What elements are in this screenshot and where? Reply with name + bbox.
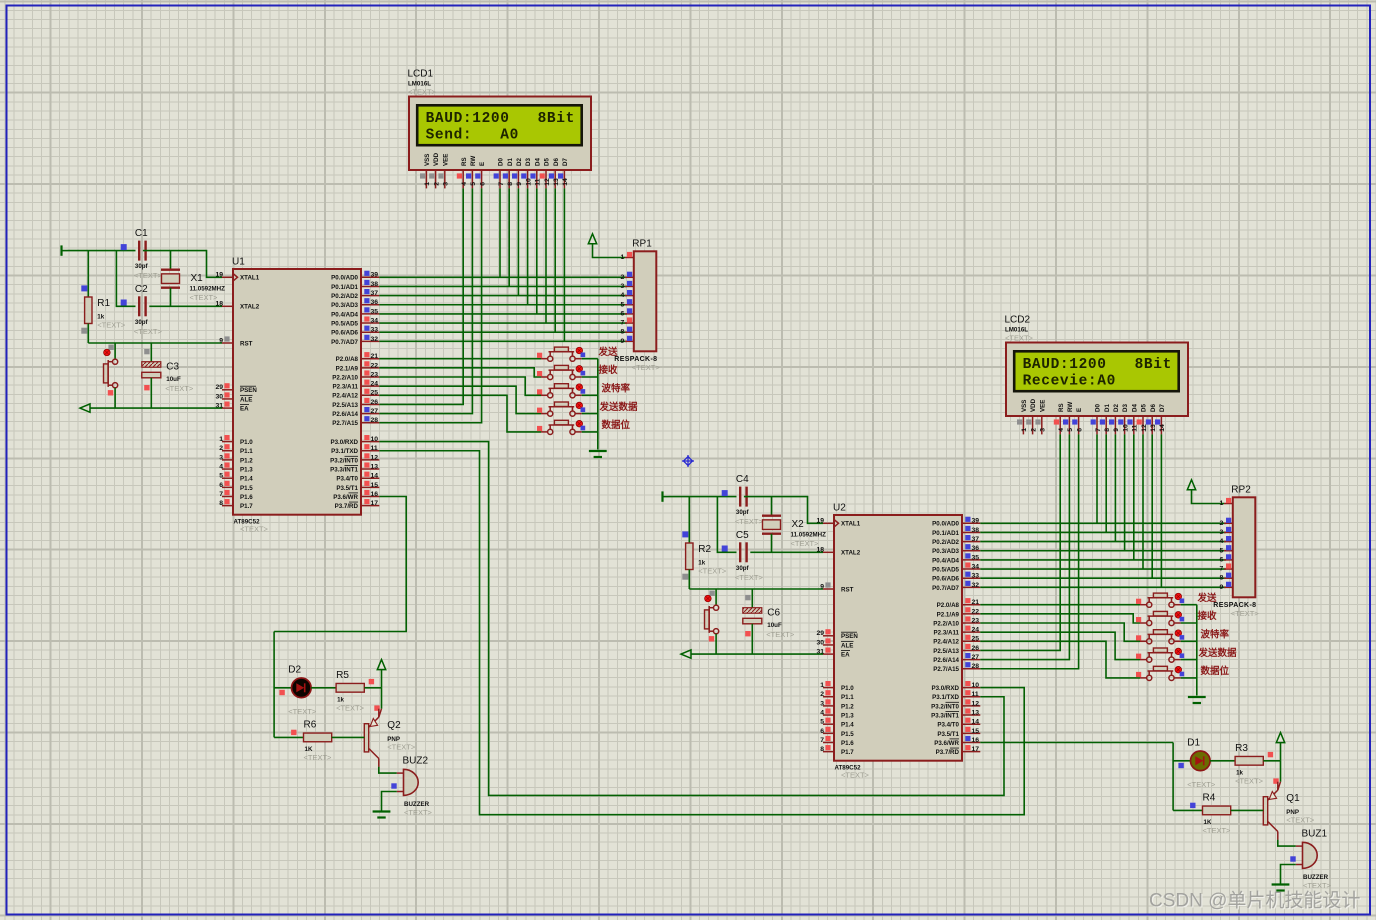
wire LCD2 E to P2.7 bbox=[980, 434, 1078, 668]
wire key2 to bus bbox=[1181, 622, 1197, 624]
svg-text:8: 8 bbox=[507, 182, 514, 186]
wire power to RP1 pin1 bbox=[593, 244, 626, 258]
wire crystal bottom stub bbox=[771, 534, 773, 553]
svg-text:P0.4/AD4: P0.4/AD4 bbox=[331, 311, 358, 318]
U2 pin P2.7/A15 (28) bbox=[933, 662, 980, 673]
svg-text:<TEXT>: <TEXT> bbox=[1235, 776, 1264, 785]
svg-text:32: 32 bbox=[972, 582, 980, 589]
U1 pin P0.5/AD5 (34) bbox=[331, 316, 379, 327]
wire LCD2 D6 to P0.6 bbox=[1151, 434, 1153, 578]
svg-text:RS: RS bbox=[461, 157, 468, 166]
lcd LCD1 pin RW (5) bbox=[466, 156, 477, 189]
svg-text:9: 9 bbox=[1220, 584, 1224, 591]
wire emitter pin (U2) bbox=[1278, 782, 1281, 790]
svg-text:9: 9 bbox=[621, 338, 625, 345]
wire U1 P0.0 to respack bbox=[379, 276, 627, 278]
U2 pin P3.2/INT0 (12) bbox=[931, 699, 980, 710]
wire RST rail to button bbox=[114, 343, 116, 359]
svg-text:P3.0/RXD: P3.0/RXD bbox=[931, 685, 959, 692]
node square btn top bbox=[108, 345, 113, 350]
svg-text:11: 11 bbox=[535, 178, 542, 185]
lcd LCD1 pin VEE (3) bbox=[438, 154, 449, 189]
wire LCD2 D7 to P0.7 bbox=[1160, 434, 1162, 587]
svg-text:P2.3/A11: P2.3/A11 bbox=[333, 384, 359, 391]
svg-text:接收: 接收 bbox=[599, 364, 619, 376]
U2 pin RST (9) bbox=[820, 582, 853, 593]
svg-text:D5: D5 bbox=[1141, 404, 1148, 412]
svg-text:LCD1: LCD1 bbox=[408, 69, 434, 80]
svg-text:P2.1/A9: P2.1/A9 bbox=[937, 611, 960, 618]
respack RP2 pin 4 bbox=[1220, 536, 1233, 545]
svg-text:D2: D2 bbox=[288, 664, 301, 675]
svg-text:P0.6/AD6: P0.6/AD6 bbox=[932, 576, 959, 583]
U2 pin P1.1 (2) bbox=[820, 690, 854, 701]
U2 pin P2.2/A10 (23) bbox=[933, 616, 980, 627]
svg-text:P2.6/A14: P2.6/A14 bbox=[933, 657, 959, 664]
svg-text:P1.1: P1.1 bbox=[841, 694, 854, 701]
U1 pin P2.5/A13 (26) bbox=[332, 398, 379, 409]
svg-text:C5: C5 bbox=[736, 530, 749, 541]
svg-text:1: 1 bbox=[424, 182, 431, 186]
svg-text:5: 5 bbox=[1067, 428, 1074, 432]
U1 pin P0.4/AD4 (35) bbox=[331, 307, 379, 318]
wire C top to crystal/XTAL1 bbox=[143, 251, 222, 278]
transistor Q2 bbox=[364, 709, 416, 767]
respack RP1 pin 1 bbox=[621, 252, 634, 261]
U2 pin P0.1/AD1 (38) bbox=[932, 526, 980, 537]
svg-text:12: 12 bbox=[371, 454, 379, 461]
svg-text:34: 34 bbox=[371, 317, 379, 324]
svg-text:4: 4 bbox=[219, 463, 223, 470]
svg-text:34: 34 bbox=[972, 563, 980, 570]
svg-text:22: 22 bbox=[972, 608, 980, 615]
svg-text:11: 11 bbox=[1132, 424, 1139, 431]
svg-text:7: 7 bbox=[621, 320, 625, 327]
U1 pin P2.0/A8 (21) bbox=[336, 352, 380, 363]
wire key4 to bus bbox=[582, 413, 598, 415]
svg-text:D4: D4 bbox=[1131, 404, 1138, 412]
svg-text:3: 3 bbox=[820, 700, 824, 707]
svg-text:P3.0/RXD: P3.0/RXD bbox=[330, 439, 358, 446]
svg-text:数据位: 数据位 bbox=[601, 419, 631, 431]
svg-text:RW: RW bbox=[1067, 402, 1074, 412]
U2 pin XTAL1 (19) bbox=[816, 518, 860, 528]
terminal arrow (EA rail) bbox=[681, 650, 691, 658]
wire power to RP2 pin1 bbox=[1192, 490, 1225, 504]
svg-text:6: 6 bbox=[219, 482, 223, 489]
svg-text:RP1: RP1 bbox=[632, 238, 652, 249]
U1 pin EA (31) bbox=[215, 402, 249, 413]
wire LCD2 RW to P2.6 bbox=[980, 434, 1069, 659]
U2 pin P0.4/AD4 (35) bbox=[932, 553, 980, 564]
svg-text:C4: C4 bbox=[736, 474, 749, 485]
node square cap top bbox=[745, 595, 750, 600]
svg-text:P2.0/A8: P2.0/A8 bbox=[336, 356, 359, 363]
wire EA rail bbox=[90, 407, 222, 409]
wire U1 P0.2 to respack bbox=[379, 295, 627, 297]
svg-text:P0.2/AD2: P0.2/AD2 bbox=[331, 293, 358, 300]
svg-text:P3.6/WR: P3.6/WR bbox=[333, 494, 358, 501]
U2 pin P2.5/A13 (26) bbox=[933, 644, 980, 655]
svg-text:P1.5: P1.5 bbox=[841, 731, 854, 738]
wire button to EA rail bbox=[114, 388, 116, 408]
svg-text:P3.5/T1: P3.5/T1 bbox=[336, 485, 358, 492]
svg-text:BAUD:1200 8Bit: BAUD:1200 8Bit bbox=[426, 111, 575, 127]
lcd LCD2 pin D7 (14) bbox=[1155, 404, 1166, 435]
svg-text:<TEXT>: <TEXT> bbox=[1187, 780, 1216, 789]
wire LCD1 D6 to P0.6 bbox=[554, 188, 556, 332]
svg-text:4: 4 bbox=[621, 292, 625, 299]
svg-text:P3.5/T1: P3.5/T1 bbox=[937, 731, 959, 738]
svg-text:<TEXT>: <TEXT> bbox=[766, 630, 795, 639]
ground tap terminal bbox=[62, 245, 68, 255]
svg-text:21: 21 bbox=[371, 353, 379, 360]
wire base (U1) bbox=[274, 736, 303, 738]
svg-text:P3.3/INT1: P3.3/INT1 bbox=[931, 712, 959, 719]
svg-text:10: 10 bbox=[972, 682, 980, 689]
wire key5 to bus bbox=[1181, 677, 1197, 679]
svg-text:8: 8 bbox=[621, 329, 625, 336]
watermark CSDN bbox=[1149, 890, 1362, 913]
svg-text:P1.7: P1.7 bbox=[240, 503, 253, 510]
U1 pin P1.7 (8) bbox=[219, 499, 253, 510]
svg-text:28: 28 bbox=[371, 417, 379, 424]
svg-text:P1.6: P1.6 bbox=[240, 494, 253, 501]
wire top rail bbox=[669, 496, 737, 498]
respack RP2 pin 9 bbox=[1220, 582, 1233, 591]
respack RP2 pin 3 bbox=[1220, 527, 1233, 536]
svg-text:P1.6: P1.6 bbox=[841, 740, 854, 747]
mcu U1 AT89C52 body bbox=[232, 257, 361, 534]
svg-text:12: 12 bbox=[1141, 424, 1148, 432]
wire buzzer to ground (U1) bbox=[382, 792, 397, 811]
lcd LCD2 labels bbox=[1005, 315, 1034, 343]
wire emitter pin (U1) bbox=[379, 709, 382, 717]
svg-text:P1.4: P1.4 bbox=[841, 722, 854, 729]
wire LCD2 RS to P2.5 bbox=[980, 434, 1060, 650]
wire U2 P0.5 to respack bbox=[980, 568, 1226, 570]
svg-text:2: 2 bbox=[1220, 520, 1224, 527]
respack RP1 pin 8 bbox=[621, 327, 634, 336]
svg-text:P0.3/AD3: P0.3/AD3 bbox=[932, 548, 959, 555]
svg-text:38: 38 bbox=[371, 281, 379, 288]
lcd LCD2 pin D0 (7) bbox=[1091, 404, 1102, 435]
push button key2-5 (data-bits) bbox=[1136, 666, 1184, 680]
capacitor C3 bbox=[142, 362, 194, 394]
wire LCD1 RW to P2.6 bbox=[379, 188, 472, 413]
terminal arrow (EA rail) bbox=[80, 404, 90, 412]
svg-text:10: 10 bbox=[1122, 424, 1129, 432]
U2 pin P1.0 (1) bbox=[820, 681, 854, 692]
push button key2-2 (receive) bbox=[1136, 611, 1184, 625]
svg-text:21: 21 bbox=[972, 599, 980, 606]
svg-text:D3: D3 bbox=[1122, 404, 1129, 412]
svg-text:<TEXT>: <TEXT> bbox=[336, 703, 365, 712]
svg-text:P2.2/A10: P2.2/A10 bbox=[332, 374, 358, 381]
wire LCD1 E to P2.7 bbox=[379, 188, 481, 422]
U1 pin XTAL1 (19) bbox=[215, 272, 259, 282]
svg-text:13: 13 bbox=[553, 178, 560, 186]
respack RP1 pin 5 bbox=[621, 299, 634, 308]
svg-text:14: 14 bbox=[972, 719, 980, 726]
svg-text:<TEXT>: <TEXT> bbox=[1303, 881, 1332, 890]
svg-text:15: 15 bbox=[371, 482, 379, 489]
svg-text:P0.5/AD5: P0.5/AD5 bbox=[331, 320, 358, 327]
svg-text:VDD: VDD bbox=[433, 152, 440, 166]
LED D1 bbox=[1187, 737, 1216, 789]
wire R to base (U2) bbox=[1231, 809, 1264, 811]
svg-text:发送数据: 发送数据 bbox=[1198, 647, 1238, 659]
svg-text:<TEXT>: <TEXT> bbox=[134, 271, 163, 280]
wire U1 P0.6 to respack bbox=[379, 331, 627, 333]
svg-text:D1: D1 bbox=[1187, 737, 1200, 748]
lcd LCD2 pin VSS (1) bbox=[1017, 400, 1028, 435]
svg-text:ALE: ALE bbox=[240, 396, 252, 403]
svg-text:LCD2: LCD2 bbox=[1005, 315, 1031, 326]
svg-text:11.0592MHZ: 11.0592MHZ bbox=[190, 286, 226, 293]
svg-text:P1.7: P1.7 bbox=[841, 749, 854, 756]
svg-text:26: 26 bbox=[371, 399, 379, 406]
svg-text:D0: D0 bbox=[498, 158, 505, 166]
svg-text:38: 38 bbox=[972, 527, 980, 534]
wire LCD1 D0 to P0.0 bbox=[499, 188, 501, 277]
U2 pin P3.1/TXD (11) bbox=[932, 690, 980, 701]
svg-text:25: 25 bbox=[371, 390, 379, 397]
svg-text:11.0592MHZ: 11.0592MHZ bbox=[791, 532, 827, 539]
svg-text:7: 7 bbox=[498, 182, 505, 186]
wire U1 P2.3 to key4 bbox=[379, 386, 541, 413]
node square buzzer (U2) bbox=[1290, 856, 1295, 861]
lcd LCD1 labels bbox=[408, 69, 437, 97]
node square emitter (U2) bbox=[1273, 778, 1278, 783]
ground below buzzer (U2) bbox=[1272, 885, 1290, 891]
wire LCD1 RS to P2.5 bbox=[379, 188, 463, 404]
wire U1 P2.0 to key1 bbox=[379, 358, 541, 360]
svg-text:5: 5 bbox=[470, 182, 477, 186]
node square LED left (U1) bbox=[279, 690, 284, 695]
svg-text:9: 9 bbox=[516, 182, 523, 186]
svg-text:10uF: 10uF bbox=[767, 622, 782, 629]
power terminal above RP1 bbox=[588, 234, 596, 244]
push button key2-3 (baud) bbox=[1136, 630, 1184, 644]
svg-text:R1: R1 bbox=[97, 298, 110, 309]
svg-text:<TEXT>: <TEXT> bbox=[240, 525, 269, 534]
U2 pin P2.4/A12 (25) bbox=[933, 635, 980, 646]
wire key1 to bus bbox=[1181, 604, 1197, 606]
svg-text:C6: C6 bbox=[767, 608, 780, 619]
wire R top stub bbox=[87, 251, 89, 297]
svg-text:P3.4/T0: P3.4/T0 bbox=[937, 722, 959, 729]
node square base (U1) bbox=[291, 730, 296, 735]
respack RP2 pin 7 bbox=[1220, 563, 1233, 572]
svg-text:接收: 接收 bbox=[1198, 610, 1218, 622]
push button key2-4 (send-data) bbox=[1136, 648, 1184, 662]
svg-text:Send: A0: Send: A0 bbox=[426, 128, 519, 144]
wire U2 P2.0 to key1 bbox=[980, 604, 1140, 606]
U1 pin P3.0/RXD (10) bbox=[330, 435, 379, 446]
mcu U2 AT89C52 body bbox=[833, 503, 962, 780]
svg-text:23: 23 bbox=[371, 371, 379, 378]
svg-text:VSS: VSS bbox=[1021, 400, 1028, 412]
svg-text:P2.5/A13: P2.5/A13 bbox=[332, 402, 358, 409]
svg-text:37: 37 bbox=[972, 536, 980, 543]
svg-text:D1: D1 bbox=[507, 158, 514, 166]
svg-text:<TEXT>: <TEXT> bbox=[404, 808, 433, 817]
svg-text:P3.2/INT0: P3.2/INT0 bbox=[330, 457, 358, 464]
U1 pin P3.7/RD (17) bbox=[335, 499, 380, 510]
resistor R4 bbox=[1203, 792, 1232, 835]
U2 pin P2.0/A8 (21) bbox=[937, 598, 981, 609]
svg-text:LM016L: LM016L bbox=[408, 81, 431, 88]
lcd LCD2 screen bbox=[1014, 351, 1178, 391]
svg-text:P0.5/AD5: P0.5/AD5 bbox=[932, 566, 959, 573]
svg-text:6: 6 bbox=[1076, 428, 1083, 432]
svg-text:1: 1 bbox=[621, 254, 625, 261]
svg-text:<TEXT>: <TEXT> bbox=[134, 327, 163, 336]
svg-text:<TEXT>: <TEXT> bbox=[97, 321, 126, 330]
svg-text:P0.0/AD0: P0.0/AD0 bbox=[331, 275, 358, 282]
wire C2 rail to XTAL2 bbox=[149, 305, 222, 307]
svg-text:3: 3 bbox=[219, 454, 223, 461]
svg-text:C2: C2 bbox=[135, 284, 148, 295]
U2 pin P3.7/RD (17) bbox=[936, 745, 981, 756]
wire U2 P2.2 to key3 bbox=[980, 623, 1140, 641]
svg-text:P1.1: P1.1 bbox=[240, 448, 253, 455]
svg-text:EA: EA bbox=[240, 406, 249, 413]
svg-text:P1.0: P1.0 bbox=[841, 685, 854, 692]
svg-text:D4: D4 bbox=[534, 158, 541, 166]
svg-text:E: E bbox=[479, 162, 486, 166]
svg-text:P2.3/A11: P2.3/A11 bbox=[934, 630, 960, 637]
U2 pin XTAL2 (18) bbox=[816, 547, 860, 557]
power terminal (U1 indicator) bbox=[377, 660, 385, 670]
lcd LCD2 pin D4 (11) bbox=[1127, 404, 1138, 435]
svg-text:4: 4 bbox=[1220, 538, 1224, 545]
wire base (U2) bbox=[1173, 809, 1202, 811]
wire U2 P0.7 to respack bbox=[980, 586, 1226, 588]
resistor R2 bbox=[686, 543, 727, 576]
svg-text:Q2: Q2 bbox=[387, 720, 401, 731]
svg-text:RST: RST bbox=[841, 586, 854, 593]
svg-text:D6: D6 bbox=[553, 158, 560, 166]
svg-text:<TEXT>: <TEXT> bbox=[304, 753, 333, 762]
svg-text:<TEXT>: <TEXT> bbox=[735, 573, 764, 582]
svg-text:27: 27 bbox=[371, 408, 379, 415]
wire top rail to C2 rail bbox=[717, 497, 736, 553]
respack RP1 pin 4 bbox=[621, 290, 634, 299]
svg-text:P1.3: P1.3 bbox=[240, 466, 253, 473]
U1 pin ALE (30) bbox=[215, 392, 252, 403]
U2 pin ALE (30) bbox=[816, 638, 853, 649]
svg-text:P3.6/WR: P3.6/WR bbox=[934, 740, 959, 747]
respack RP2 pin 2 bbox=[1220, 518, 1233, 527]
svg-text:发送数据: 发送数据 bbox=[599, 401, 639, 413]
svg-text:P0.1/AD1: P0.1/AD1 bbox=[331, 284, 358, 291]
svg-text:2: 2 bbox=[433, 182, 440, 186]
svg-text:D0: D0 bbox=[1095, 404, 1102, 412]
U1 pin P1.6 (7) bbox=[219, 490, 253, 501]
svg-text:6: 6 bbox=[621, 310, 625, 317]
svg-text:波特率: 波特率 bbox=[602, 383, 631, 395]
push button (reset) 1 bbox=[104, 349, 118, 388]
wire U1 P2.2 to key3 bbox=[379, 377, 541, 395]
wire key3 to bus bbox=[1181, 640, 1197, 642]
wire U1 P0.7 to respack bbox=[379, 340, 627, 342]
power terminal above RP2 bbox=[1187, 480, 1195, 490]
lcd LCD1 pin RS (4) bbox=[457, 157, 468, 188]
wire LCD1 D1 to P0.1 bbox=[508, 188, 510, 286]
svg-text:13: 13 bbox=[972, 709, 980, 716]
push button key1-1 (send) bbox=[537, 347, 585, 361]
svg-text:16: 16 bbox=[371, 491, 379, 498]
respack RP2 pin 8 bbox=[1220, 573, 1233, 582]
svg-text:2: 2 bbox=[1030, 428, 1037, 432]
wire key1 to bus bbox=[582, 358, 598, 360]
resistor R3 bbox=[1235, 743, 1264, 786]
buzzer BUZ2 bbox=[397, 755, 433, 817]
respack RP1 pin 6 bbox=[621, 308, 634, 317]
svg-text:26: 26 bbox=[972, 645, 980, 652]
wire feed vertical (U1) bbox=[273, 632, 275, 738]
wire LCD2 D4 to P0.4 bbox=[1133, 434, 1135, 560]
U1 pin P0.0/AD0 (39) bbox=[331, 271, 379, 282]
wire U2 key bus bbox=[1196, 605, 1198, 696]
svg-text:1k: 1k bbox=[337, 696, 344, 703]
svg-text:<TEXT>: <TEXT> bbox=[791, 539, 820, 548]
svg-text:波特率: 波特率 bbox=[1201, 629, 1230, 641]
wire U2 P0.1 to respack bbox=[980, 531, 1226, 533]
node square base (U2) bbox=[1190, 803, 1195, 808]
wire RST rail bbox=[88, 342, 222, 344]
svg-text:13: 13 bbox=[1150, 424, 1157, 432]
wire U2 P0.2 to respack bbox=[980, 541, 1226, 543]
U1 pin P3.1/TXD (11) bbox=[331, 444, 379, 455]
resistor R6 bbox=[304, 719, 333, 762]
U1 pin P1.4 (5) bbox=[219, 472, 253, 483]
wire RST rail to button bbox=[715, 589, 717, 605]
lcd LCD1 pin E (6) bbox=[475, 162, 486, 189]
svg-text:P2.2/A10: P2.2/A10 bbox=[933, 620, 959, 627]
svg-text:1: 1 bbox=[820, 682, 824, 689]
svg-text:<TEXT>: <TEXT> bbox=[698, 567, 727, 576]
svg-text:X2: X2 bbox=[792, 519, 805, 530]
wire to LED (U1) bbox=[274, 687, 291, 689]
svg-text:P3.3/INT1: P3.3/INT1 bbox=[330, 466, 358, 473]
svg-text:P3.2/INT0: P3.2/INT0 bbox=[931, 703, 959, 710]
wire R top stub bbox=[688, 497, 690, 543]
wire LCD1 D2 to P0.2 bbox=[517, 188, 519, 295]
svg-text:XTAL1: XTAL1 bbox=[841, 521, 861, 528]
buzzer BUZ1 bbox=[1296, 828, 1332, 890]
U2 pin EA (31) bbox=[816, 648, 850, 659]
svg-text:35: 35 bbox=[972, 554, 980, 561]
respack RP1 pin 2 bbox=[621, 272, 634, 281]
svg-text:P2.4/A12: P2.4/A12 bbox=[332, 393, 358, 400]
svg-text:17: 17 bbox=[371, 500, 379, 507]
U1 pin XTAL2 (18) bbox=[215, 301, 259, 311]
U1 pin P1.3 (4) bbox=[219, 462, 253, 473]
svg-text:P1.2: P1.2 bbox=[841, 703, 854, 710]
svg-text:30pf: 30pf bbox=[736, 565, 750, 572]
ground below U1 key bus bbox=[589, 451, 607, 457]
node square R bottom bbox=[81, 328, 87, 334]
lcd LCD1 pin D0 (7) bbox=[494, 158, 505, 189]
node square R right (U2) bbox=[1268, 752, 1273, 757]
U1 pin P2.3/A11 (24) bbox=[333, 380, 380, 391]
svg-text:<TEXT>: <TEXT> bbox=[1005, 334, 1034, 343]
svg-text:C1: C1 bbox=[135, 228, 148, 239]
wire crystal bottom stub bbox=[170, 288, 172, 307]
